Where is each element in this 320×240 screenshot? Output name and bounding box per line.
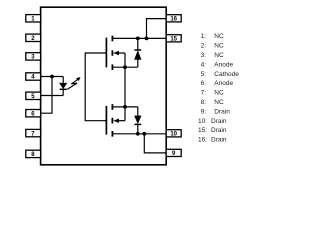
MOSFET Q2 (bottom) gate bar: [105, 106, 107, 135]
MOSFET Q2 drain stub / wire to pin 10: [112, 133, 166, 135]
MOSFET Q1 drain stub / wire to pin 15: [112, 37, 166, 39]
wire pin4 anode row: [41, 76, 64, 78]
svg-text:NC: NC: [214, 52, 224, 59]
svg-text:15:: 15:: [198, 127, 207, 134]
pin 7: [26, 129, 41, 137]
svg-text:15: 15: [170, 37, 177, 43]
pin 8: [26, 150, 41, 158]
svg-text:9:: 9:: [201, 108, 207, 115]
wire LED cathode lead: [62, 89, 64, 95]
svg-text:Anode: Anode: [214, 61, 233, 68]
svg-text:16:: 16:: [198, 137, 207, 144]
pin 15: [166, 35, 181, 43]
MOSFET Q2 body arrow: [113, 119, 119, 123]
body diode D2 (top): [134, 38, 141, 67]
junction dot D3/drain row: [136, 132, 140, 136]
LED D1 cathode bar: [60, 88, 67, 90]
svg-text:NC: NC: [214, 33, 224, 40]
svg-text:Drain: Drain: [211, 137, 227, 144]
MOSFET Q2 body lead: [118, 120, 125, 122]
package outline (16-pin DIP body): [41, 7, 167, 165]
pin 3: [26, 53, 41, 61]
wire LED anode lead: [62, 77, 64, 84]
svg-text:Drain: Drain: [211, 127, 227, 134]
MOSFET Q1 body lead: [118, 52, 125, 54]
svg-text:NC: NC: [214, 43, 224, 50]
svg-text:Anode: Anode: [214, 80, 233, 87]
junction dot pin9 branch: [142, 132, 146, 136]
junction dot pin4/anode tie: [50, 75, 54, 79]
light emission arrow: [67, 77, 80, 89]
svg-text:2:: 2:: [201, 43, 207, 50]
svg-text:8:: 8:: [201, 99, 207, 106]
svg-text:3:: 3:: [201, 52, 207, 59]
MOSFET Q2 source row: [112, 106, 137, 108]
svg-text:Drain: Drain: [211, 118, 227, 125]
pin 16: [166, 15, 181, 23]
gate drive net (photovoltaic output): [85, 53, 106, 121]
svg-text:6:: 6:: [201, 80, 207, 87]
svg-text:16: 16: [170, 17, 177, 23]
wire branch to pin 9: [144, 134, 166, 153]
pin 10: [166, 130, 181, 138]
pin function list: [198, 33, 239, 143]
MOSFET Q1 (top) gate bar: [105, 38, 107, 68]
svg-text:7:: 7:: [201, 90, 207, 97]
wire branch to pin 16: [147, 19, 167, 39]
MOSFET Q2 channel segments: [111, 104, 113, 137]
MOSFET Q1 body arrow: [113, 51, 119, 55]
pin 9: [166, 149, 181, 157]
svg-text:5:: 5:: [201, 71, 207, 78]
junction dot D2/drain row: [136, 37, 140, 41]
pin 5: [26, 92, 41, 100]
svg-text:1:: 1:: [201, 33, 207, 40]
svg-text:10: 10: [170, 132, 177, 138]
wire anode tie pin4 to pin6: [41, 77, 52, 114]
junction dot pin16 branch: [145, 37, 149, 41]
svg-text:Cathode: Cathode: [214, 71, 239, 78]
MOSFET Q1 source row: [112, 66, 137, 68]
svg-text:Drain: Drain: [214, 108, 230, 115]
LED D1 triangle: [60, 83, 67, 88]
pin 6: [26, 110, 41, 118]
svg-text:4:: 4:: [201, 61, 207, 68]
junction dot Q1 source/body: [123, 65, 127, 69]
pin 2: [26, 34, 41, 42]
junction dot Q2 source/body: [123, 105, 127, 109]
body diode D3 (bottom): [134, 107, 141, 134]
wire pin5 cathode row: [41, 95, 64, 97]
source tie vertical Q1-Q2: [124, 53, 126, 121]
svg-text:10:: 10:: [198, 118, 207, 125]
svg-text:NC: NC: [214, 90, 224, 97]
MOSFET Q1 channel segments: [111, 36, 113, 70]
svg-text:NC: NC: [214, 99, 224, 106]
pin 4: [26, 73, 41, 81]
pin 1: [26, 15, 41, 23]
